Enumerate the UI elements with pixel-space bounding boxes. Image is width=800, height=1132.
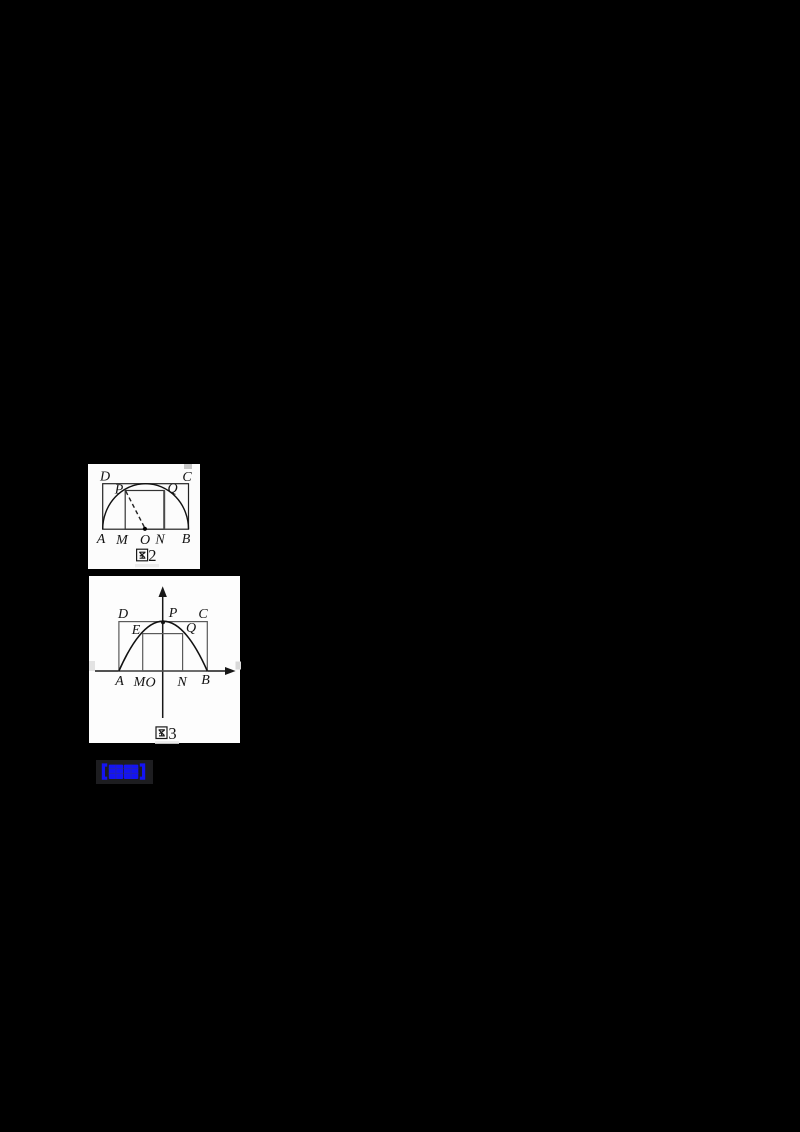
svg-text:A: A <box>114 673 124 688</box>
outer rectangle ADCB <box>103 483 189 529</box>
svg-text:3: 3 <box>168 723 176 742</box>
svg-text:B: B <box>201 673 210 688</box>
character 解 blob <box>108 765 122 779</box>
svg-text:A: A <box>96 532 106 547</box>
gray smear left of axis at panel edge <box>89 661 95 671</box>
dark slits texturing the characters <box>108 765 138 779</box>
svg-text:E: E <box>130 622 140 637</box>
semicircle on diameter AB <box>103 483 189 529</box>
caption glyph 图 <box>137 549 148 561</box>
x-axis <box>95 670 227 672</box>
svg-text:P: P <box>114 482 124 497</box>
x-axis arrowhead <box>225 667 236 675</box>
faint smudge under caption <box>135 564 159 567</box>
thicker right side of inner rectangle <box>163 490 165 529</box>
svg-text:P: P <box>167 605 177 620</box>
highlight block behind blue tag <box>96 760 153 785</box>
outer rectangle DCBA <box>118 621 206 670</box>
bracket 】 <box>139 765 143 778</box>
gray scan artifact square <box>184 464 192 469</box>
dot at center O <box>143 526 147 530</box>
svg-text:C: C <box>182 469 192 484</box>
dashed line P to O <box>126 491 145 527</box>
dot at vertex P <box>161 620 165 624</box>
figure panel 图3 <box>89 576 241 744</box>
character 析 blob <box>123 765 137 779</box>
gray smear right edge near arrowhead <box>235 661 241 669</box>
blue tag 【解析】 drawn as strokes <box>100 763 147 785</box>
svg-text:O: O <box>145 675 155 690</box>
svg-text:M: M <box>115 533 129 548</box>
inner rectangle MEQN <box>142 633 182 670</box>
svg-text:B: B <box>182 532 191 547</box>
svg-text:N: N <box>176 674 187 689</box>
svg-text:C: C <box>198 606 208 621</box>
svg-text:D: D <box>99 469 110 484</box>
svg-text:Q: Q <box>185 621 195 636</box>
y-axis <box>161 594 163 718</box>
svg-text:2: 2 <box>148 546 156 565</box>
figure panel 图2 <box>88 464 200 569</box>
inner rectangle MPQN <box>125 490 164 529</box>
y-axis arrowhead <box>158 586 166 597</box>
faint smudge under caption <box>155 741 179 744</box>
caption glyph 图 <box>156 726 167 738</box>
parabola through A vertex P B <box>118 621 206 671</box>
bracket 【 <box>103 765 107 778</box>
svg-text:Q: Q <box>167 481 177 496</box>
svg-text:D: D <box>116 606 127 621</box>
